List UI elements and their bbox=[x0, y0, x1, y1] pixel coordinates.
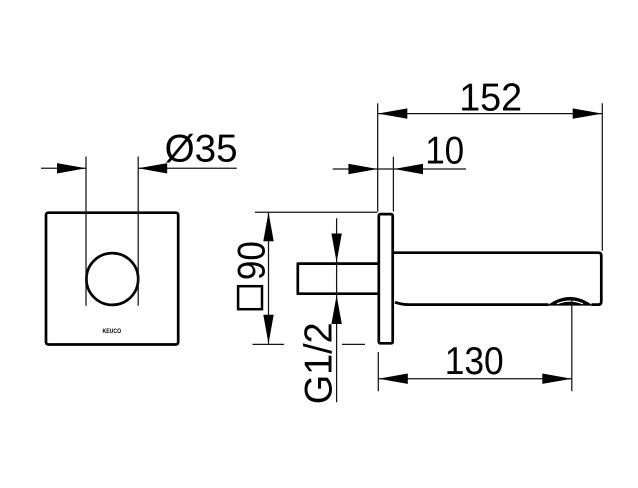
130 extension line left bbox=[377, 352, 379, 391]
sq90 extension line bottom left segment bbox=[253, 343, 285, 345]
side view: spout body outline bbox=[394, 253, 601, 305]
152 arrow left bbox=[378, 108, 408, 118]
front view: spout circle bbox=[86, 253, 138, 305]
center line through shaft bbox=[336, 218, 338, 402]
10 arrow right (outside, pointing left) bbox=[394, 164, 423, 174]
152 extension line left bbox=[377, 103, 379, 211]
10 extension line right bbox=[392, 157, 394, 212]
sq90 square symbol bbox=[238, 286, 262, 309]
130 extension line right (from outlet) bbox=[571, 299, 573, 391]
spout bottom edge left of outlet bbox=[395, 302, 549, 304]
svg-text:KEUCO: KEUCO bbox=[103, 328, 122, 335]
svg-text:130: 130 bbox=[445, 340, 504, 383]
svg-text:152: 152 bbox=[459, 77, 522, 120]
sq90 arrow down bbox=[263, 315, 273, 344]
130 dimension line bbox=[378, 378, 572, 380]
dia35 arrow left bbox=[57, 163, 86, 173]
side view: wall plate bbox=[379, 214, 393, 343]
svg-text:90: 90 bbox=[231, 241, 274, 280]
spout outlet arc (solid) bbox=[547, 297, 593, 306]
dia35 extension line left bbox=[85, 157, 87, 306]
130 arrow left bbox=[378, 374, 408, 384]
152 extension line right bbox=[601, 103, 603, 251]
shaft dim arrow down bbox=[331, 234, 341, 263]
sq90 arrow up bbox=[263, 212, 273, 241]
shaft dim arrow up bbox=[331, 295, 341, 324]
svg-text:G1/2: G1/2 bbox=[297, 322, 340, 404]
dia35 dimension line right tail bbox=[138, 167, 237, 169]
10 arrow left (outside, pointing right) bbox=[348, 164, 377, 174]
svg-text:Ø35: Ø35 bbox=[165, 128, 238, 171]
130 arrow right bbox=[542, 374, 572, 384]
dia35 extension line right bbox=[137, 157, 139, 306]
10 dimension line bbox=[333, 168, 466, 170]
152 arrow right bbox=[573, 108, 603, 118]
sq90 extension line bottom right segment bbox=[342, 343, 365, 345]
sq90 dimension line bbox=[268, 212, 270, 344]
dia35 arrow right bbox=[138, 163, 167, 173]
sq90 extension line top bbox=[255, 211, 378, 213]
dia35 dimension line left tail bbox=[41, 167, 86, 169]
front view: square wall plate bbox=[46, 213, 178, 345]
spout outlet arc inner lip bbox=[557, 301, 583, 304]
svg-text:10: 10 bbox=[425, 130, 464, 173]
side view: supply shaft G1/2 bbox=[298, 264, 378, 294]
152 dimension line bbox=[378, 113, 602, 115]
